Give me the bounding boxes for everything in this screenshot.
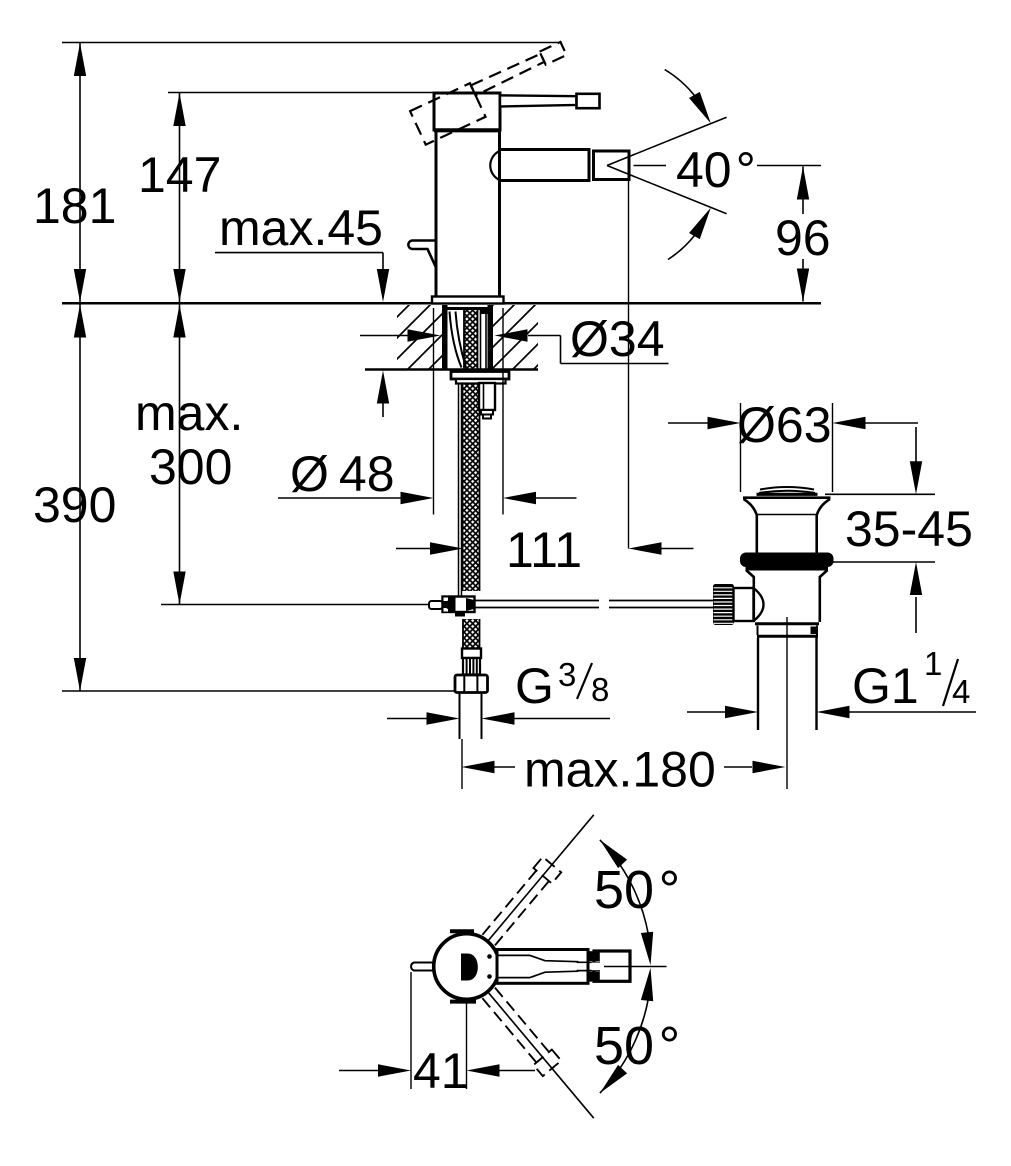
svg-text:1: 1 (924, 645, 942, 682)
svg-text:147: 147 (138, 147, 221, 203)
svg-text:max.45: max.45 (219, 200, 383, 256)
svg-text:40 °: 40 ° (676, 142, 756, 198)
svg-text:50 °: 50 ° (594, 1016, 680, 1076)
svg-text:Ø 48: Ø 48 (290, 446, 395, 502)
svg-text:G: G (515, 658, 554, 714)
svg-text:35-45: 35-45 (845, 501, 973, 557)
svg-text:max.: max. (135, 385, 243, 441)
svg-text:G1: G1 (852, 658, 919, 714)
svg-text:50 °: 50 ° (594, 860, 680, 920)
svg-text:300: 300 (149, 439, 232, 495)
svg-text:390: 390 (33, 477, 116, 533)
svg-text:8: 8 (591, 671, 609, 708)
svg-text:96: 96 (775, 210, 831, 266)
svg-text:3: 3 (558, 656, 576, 693)
svg-text:111: 111 (506, 522, 582, 578)
svg-text:max.180: max.180 (524, 742, 716, 798)
svg-text:Ø34: Ø34 (570, 311, 665, 367)
svg-text:4: 4 (952, 673, 970, 710)
svg-text:Ø63: Ø63 (737, 397, 832, 453)
svg-text:181: 181 (33, 178, 116, 234)
svg-text:41: 41 (413, 1043, 469, 1099)
